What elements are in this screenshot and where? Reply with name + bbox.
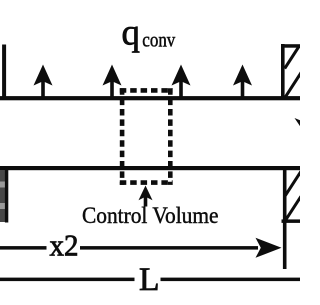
fin bottom surface line [0, 166, 300, 170]
label q_conv [122, 13, 176, 54]
right wall above fin [281, 44, 302, 98]
svg-text:Control Volume: Control Volume [82, 203, 219, 228]
control volume pointer arrow [139, 186, 153, 207]
left wall edge above fin [2, 45, 6, 98]
convection up-arrow 4 [233, 65, 252, 98]
fin top surface line [0, 96, 300, 100]
svg-text:conv: conv [142, 31, 175, 52]
svg-text:q: q [122, 13, 141, 54]
convection up-arrow 3 [172, 65, 191, 98]
svg-text:L: L [139, 262, 160, 298]
right wall below fin + dimension extension line [282, 167, 302, 269]
convection up-arrow 1 [34, 65, 53, 98]
dashed control volume rectangle [120, 88, 173, 185]
cropped down arrowhead at right edge [295, 118, 312, 131]
svg-text:x2: x2 [50, 228, 79, 262]
x2 dimension line [0, 238, 282, 258]
convection up-arrow 2 [103, 65, 122, 98]
L dimension line [0, 278, 300, 282]
left wall sliver below fin (hatched strip) [0, 167, 8, 223]
